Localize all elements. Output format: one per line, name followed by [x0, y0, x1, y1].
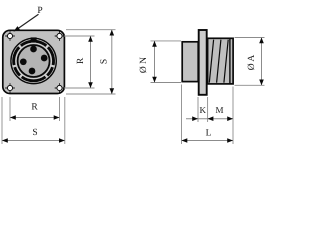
pin 3 (bottom)	[29, 68, 36, 75]
dim K/M extension lines	[181, 85, 183, 145]
dim K/M line	[186, 118, 233, 120]
dim N: line	[154, 41, 156, 83]
dim S right: line	[111, 30, 113, 94]
mounting hole top-left	[5, 31, 15, 41]
dim A arrows	[259, 38, 264, 44]
dim R right: extension lines	[64, 35, 95, 37]
svg-text:S: S	[100, 59, 110, 64]
K outside arrow (points right at 198)	[192, 116, 198, 121]
dim L line	[182, 140, 234, 142]
dim R bottom: extension lines	[9, 97, 11, 121]
dim L arrows	[182, 138, 188, 143]
side view flange	[199, 30, 207, 95]
svg-text:L: L	[206, 129, 212, 139]
dim R bottom: line	[10, 117, 60, 119]
dim S right arrows	[110, 30, 115, 36]
side view threaded barrel	[208, 38, 234, 84]
M right arrow (points right at 233)	[227, 116, 233, 121]
dim A: line	[261, 38, 263, 86]
pin 4 (left)	[20, 58, 27, 65]
svg-text:M: M	[215, 105, 223, 115]
svg-text:S: S	[32, 128, 37, 138]
leader arrowhead	[13, 26, 20, 32]
svg-text:R: R	[31, 103, 38, 113]
svg-text:K: K	[199, 105, 206, 115]
key tab	[31, 37, 37, 42]
thread hatch lines	[209, 40, 228, 83]
dim S bottom: line	[2, 140, 65, 142]
connector bayonet ring arcs	[14, 41, 54, 81]
dim S bottom: extension lines	[1, 97, 3, 144]
pin 2 (right)	[41, 55, 48, 62]
dim R right: line	[90, 36, 92, 88]
leader line P	[17, 14, 39, 29]
connector inner insert circle	[18, 45, 50, 77]
svg-text:Ø N: Ø N	[139, 57, 149, 73]
dim R right arrows	[88, 36, 93, 42]
dim A right: extension lines	[235, 37, 265, 39]
svg-text:R: R	[76, 57, 86, 64]
barrel end step line	[229, 38, 231, 84]
shared arrow (points left at 207.6)	[208, 116, 214, 121]
pin 1 (top)	[30, 46, 37, 53]
insert face disc	[18, 46, 48, 76]
mounting hole bottom-right	[55, 83, 65, 93]
dim N arrows	[152, 41, 157, 47]
side view rear body	[182, 42, 198, 82]
flange (front view square body)	[3, 30, 65, 93]
mounting hole top-right	[55, 31, 65, 41]
dim N left: extension lines	[151, 40, 182, 42]
mounting hole bottom-left	[5, 83, 15, 93]
dim R bottom arrows	[10, 115, 16, 120]
dim S right: extension lines	[66, 29, 116, 31]
svg-text:Ø A: Ø A	[247, 55, 257, 71]
dim S bottom arrows	[2, 138, 8, 143]
connector shell outline circle	[11, 38, 56, 83]
